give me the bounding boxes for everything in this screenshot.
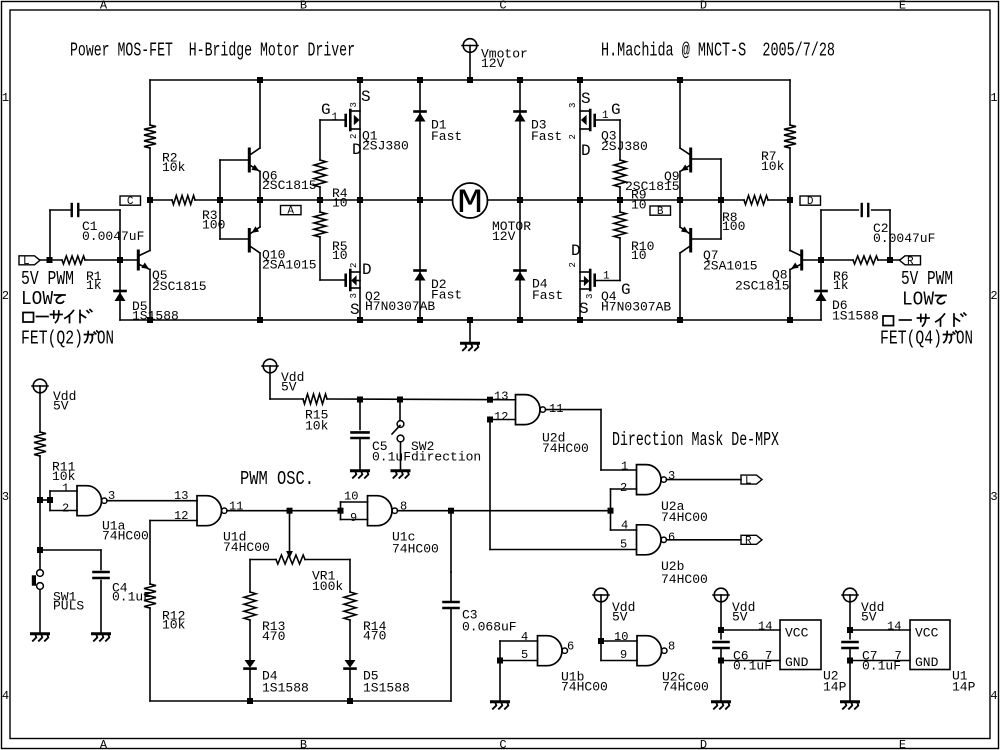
svg-text:VCC: VCC <box>915 626 939 641</box>
svg-text:H.Machida @ MNCT-S 2005/7/28: H.Machida @ MNCT-S 2005/7/28 <box>601 40 835 62</box>
svg-text:2SC1815: 2SC1815 <box>735 279 790 294</box>
svg-text:1S1588: 1S1588 <box>363 681 410 696</box>
svg-text:14: 14 <box>758 620 772 634</box>
svg-text:2: 2 <box>568 262 578 267</box>
svg-text:A: A <box>287 206 294 218</box>
svg-text:1: 1 <box>602 110 609 122</box>
svg-text:FET(Q4): FET(Q4) <box>880 328 942 350</box>
svg-text:74HC00: 74HC00 <box>542 441 589 456</box>
svg-text:1: 1 <box>2 91 9 105</box>
svg-text:S: S <box>581 90 591 108</box>
svg-text:10k: 10k <box>305 419 329 434</box>
svg-text:5: 5 <box>521 648 528 662</box>
svg-text:6: 6 <box>567 640 574 654</box>
svg-text:R: R <box>907 256 914 268</box>
svg-text:5V: 5V <box>281 380 297 395</box>
svg-text:5V: 5V <box>53 399 69 414</box>
svg-text:PWM OSC.: PWM OSC. <box>240 468 314 490</box>
svg-text:H7N0307AB: H7N0307AB <box>365 299 435 314</box>
svg-text:D: D <box>362 261 372 279</box>
svg-text:74HC00: 74HC00 <box>223 540 270 555</box>
svg-text:8: 8 <box>668 640 675 654</box>
svg-text:11: 11 <box>229 500 243 514</box>
svg-text:12: 12 <box>174 509 188 523</box>
svg-text:12V: 12V <box>481 56 505 71</box>
svg-text:470: 470 <box>363 629 386 644</box>
svg-text:B: B <box>300 0 307 13</box>
svg-text:1: 1 <box>990 91 997 105</box>
svg-text:0.1uF: 0.1uF <box>112 590 151 605</box>
svg-text:12: 12 <box>494 410 508 424</box>
svg-text:2: 2 <box>990 289 997 303</box>
svg-text:14P: 14P <box>952 680 976 695</box>
svg-text:4: 4 <box>621 519 628 533</box>
svg-text:1k: 1k <box>86 278 102 293</box>
svg-text:FET(Q2): FET(Q2) <box>21 328 83 350</box>
svg-text:10: 10 <box>332 248 348 263</box>
svg-text:74HC00: 74HC00 <box>561 680 608 695</box>
svg-text:2SC1815: 2SC1815 <box>262 178 317 193</box>
svg-text:0.1uFdirection: 0.1uFdirection <box>372 450 481 465</box>
svg-text:10: 10 <box>344 490 358 504</box>
svg-text:1S1588: 1S1588 <box>132 309 179 324</box>
svg-text:1: 1 <box>332 112 339 124</box>
svg-text:E: E <box>899 738 906 750</box>
svg-text:5V: 5V <box>861 610 877 625</box>
svg-text:2SJ380: 2SJ380 <box>362 139 409 154</box>
svg-text:9: 9 <box>350 511 357 525</box>
svg-text:D: D <box>807 196 814 208</box>
svg-text:10k: 10k <box>761 159 785 174</box>
svg-text:L: L <box>23 256 30 268</box>
svg-text:5: 5 <box>620 538 627 552</box>
svg-text:D: D <box>352 141 362 159</box>
svg-text:3: 3 <box>668 469 675 483</box>
svg-text:D: D <box>700 0 707 13</box>
svg-text:VCC: VCC <box>785 626 809 641</box>
svg-text:1: 1 <box>62 481 69 495</box>
svg-text:0.0047uF: 0.0047uF <box>82 229 144 244</box>
svg-text:12V: 12V <box>492 229 516 244</box>
svg-text:ON: ON <box>956 328 973 350</box>
svg-text:2: 2 <box>349 134 359 139</box>
svg-text:0.1uF: 0.1uF <box>862 659 901 674</box>
svg-text:6: 6 <box>668 531 675 545</box>
svg-text:A: A <box>100 738 108 750</box>
svg-text:4: 4 <box>990 689 997 703</box>
svg-text:74HC00: 74HC00 <box>661 510 708 525</box>
svg-text:74HC00: 74HC00 <box>662 680 709 695</box>
svg-text:1: 1 <box>621 460 628 474</box>
svg-text:3: 3 <box>990 490 997 504</box>
svg-text:G: G <box>321 101 331 119</box>
svg-text:B: B <box>300 738 307 750</box>
svg-text:2SC1815: 2SC1815 <box>152 279 207 294</box>
svg-text:ON: ON <box>97 328 114 350</box>
svg-text:Fast: Fast <box>431 288 462 303</box>
svg-text:10: 10 <box>631 248 647 263</box>
svg-text:2: 2 <box>2 289 9 303</box>
svg-text:2SJ380: 2SJ380 <box>601 139 648 154</box>
svg-text:10k: 10k <box>162 160 186 175</box>
svg-text:G: G <box>621 281 631 299</box>
svg-text:Fast: Fast <box>531 129 562 144</box>
svg-text:3: 3 <box>349 102 359 107</box>
svg-text:3: 3 <box>585 294 595 299</box>
svg-text:10: 10 <box>631 198 647 213</box>
svg-text:2SA1015: 2SA1015 <box>262 258 317 273</box>
svg-text:14: 14 <box>887 620 901 634</box>
svg-text:D: D <box>581 142 591 160</box>
svg-text:13: 13 <box>494 390 508 404</box>
svg-text:8: 8 <box>400 500 407 514</box>
svg-text:3: 3 <box>349 293 359 298</box>
svg-text:R: R <box>745 536 752 548</box>
svg-text:470: 470 <box>262 629 285 644</box>
svg-text:GND: GND <box>915 655 939 670</box>
svg-text:M: M <box>457 185 483 223</box>
svg-text:C: C <box>127 196 134 208</box>
svg-text:1k: 1k <box>833 278 849 293</box>
svg-text:LOW: LOW <box>902 289 935 311</box>
svg-text:5V PWM: 5V PWM <box>901 268 953 290</box>
svg-text:Fast: Fast <box>532 288 563 303</box>
svg-text:100: 100 <box>202 218 225 233</box>
svg-text:9: 9 <box>620 648 627 662</box>
svg-text:3: 3 <box>108 489 115 503</box>
svg-text:1: 1 <box>603 271 610 283</box>
svg-text:L: L <box>745 475 752 487</box>
svg-text:13: 13 <box>174 489 188 503</box>
svg-text:2: 2 <box>620 481 627 495</box>
svg-text:4: 4 <box>2 689 9 703</box>
svg-text:D: D <box>700 738 707 750</box>
svg-text:E: E <box>899 0 906 13</box>
svg-text:74HC00: 74HC00 <box>661 572 708 587</box>
svg-text:PULS: PULS <box>53 599 84 614</box>
svg-text:5V: 5V <box>612 610 628 625</box>
svg-text:S: S <box>361 88 371 106</box>
svg-text:Power MOS-FET H-Bridge Motor: Power MOS-FET H-Bridge Motor Driver <box>70 40 355 62</box>
svg-text:10k: 10k <box>162 618 186 633</box>
svg-text:S: S <box>350 301 360 319</box>
svg-text:5V PWM: 5V PWM <box>21 268 74 290</box>
svg-text:D: D <box>571 242 581 260</box>
svg-text:1S1588: 1S1588 <box>832 309 879 324</box>
svg-text:100k: 100k <box>312 579 343 594</box>
svg-text:0.0047uF: 0.0047uF <box>873 231 935 246</box>
svg-text:0.1uF: 0.1uF <box>733 659 772 674</box>
svg-text:Direction Mask De-MPX: Direction Mask De-MPX <box>612 429 779 451</box>
svg-text:GND: GND <box>785 655 809 670</box>
svg-text:Fast: Fast <box>431 129 462 144</box>
svg-text:74HC00: 74HC00 <box>392 542 439 557</box>
svg-text:0.068uF: 0.068uF <box>462 620 517 635</box>
svg-text:G: G <box>611 101 621 119</box>
svg-text:11: 11 <box>549 402 563 416</box>
svg-text:A: A <box>100 0 108 13</box>
svg-text:1S1588: 1S1588 <box>262 681 309 696</box>
svg-text:C: C <box>499 738 506 750</box>
svg-text:74HC00: 74HC00 <box>102 529 149 544</box>
svg-text:10: 10 <box>332 196 348 211</box>
svg-text:3: 3 <box>568 103 578 108</box>
svg-text:10: 10 <box>614 630 628 644</box>
svg-text:3: 3 <box>2 490 9 504</box>
svg-text:100: 100 <box>722 219 745 234</box>
svg-text:H7N0307AB: H7N0307AB <box>601 300 671 315</box>
svg-text:4: 4 <box>521 630 528 644</box>
svg-text:B: B <box>657 206 664 218</box>
svg-text:2: 2 <box>62 502 69 516</box>
svg-text:2SA1015: 2SA1015 <box>703 259 758 274</box>
svg-text:2: 2 <box>568 134 578 139</box>
svg-text:5V: 5V <box>732 610 748 625</box>
svg-text:LOW: LOW <box>21 288 54 310</box>
svg-text:C: C <box>499 0 506 13</box>
svg-text:S: S <box>579 300 589 318</box>
svg-text:14P: 14P <box>823 680 847 695</box>
svg-text:2: 2 <box>349 263 359 268</box>
